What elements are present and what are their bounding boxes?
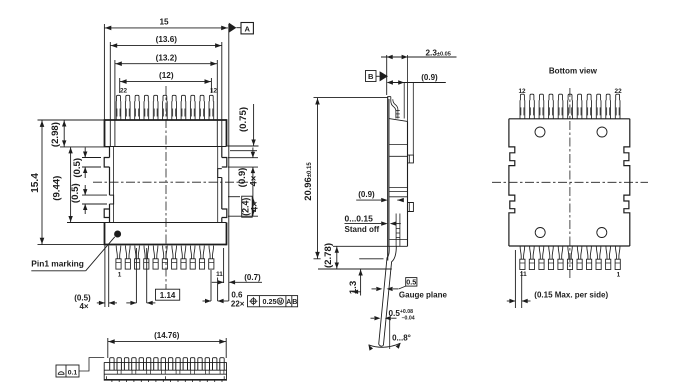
top leads row (pins 22..12) [116,95,214,120]
svg-text:−0.04: −0.04 [402,316,415,322]
front view leads [110,358,225,382]
svg-text:(0.5): (0.5) [72,158,83,178]
side bump right upper [222,158,227,168]
dimension (0.9) top [388,82,446,84]
datum A flag [229,23,237,33]
dimension (2.98) [63,120,65,147]
seating plane extension line [314,258,321,260]
svg-text:(12): (12) [159,71,174,80]
svg-text:(0.7): (0.7) [244,273,261,282]
svg-text:0...0.15: 0...0.15 [345,213,374,223]
side view body [389,119,408,122]
dimension (2.78) [336,246,338,269]
svg-text:0.25: 0.25 [263,297,277,306]
flatness feature control frame 0.1 [56,365,79,377]
datum B flag [366,71,377,82]
dimension 1.14 boxed [135,248,137,303]
svg-text:12: 12 [518,88,526,95]
svg-text:(0.75): (0.75) [238,107,249,132]
dimension (2.4) 4x boxed [252,197,254,217]
svg-text:11: 11 [216,271,223,278]
side view bottom lead [379,246,390,344]
dimension (13.6) [110,45,222,47]
side view bump upper [408,155,414,163]
dimension 0.5 +0.08 -0.04 [371,317,375,319]
svg-text:B: B [292,299,297,306]
svg-text:B: B [368,72,374,81]
package body top band [105,119,227,121]
svg-text:(9.44): (9.44) [52,176,63,201]
bottom view bottom leads [520,246,621,270]
horizontal centerline left view [93,181,248,183]
extension line left x=104.4 [103,24,105,120]
svg-text:1: 1 [617,272,621,279]
svg-text:22: 22 [615,88,623,95]
svg-text:15.4: 15.4 [30,173,41,193]
svg-text:(0.9): (0.9) [358,190,375,199]
svg-text:0...8°: 0...8° [392,334,411,343]
svg-text:(0.9): (0.9) [421,73,438,82]
side view bottom lead shank [395,214,397,247]
side notch right [218,169,222,178]
gauge plane thickness arrows [372,288,377,290]
dimension (0.7) [210,270,212,301]
dimension (0.15 Max. per side) [514,250,516,308]
side view mold lines [390,144,408,146]
side bump right lower [222,209,227,218]
svg-text:M: M [278,300,282,306]
svg-text:22×: 22× [231,299,245,308]
svg-text:A: A [286,299,291,306]
body inner draft lines [113,147,115,223]
dimension (0.5) upper [84,148,86,158]
front view body [103,362,105,380]
bottom view top leads [520,94,620,119]
feature control frame position 0.25 M A B [248,296,298,307]
bottom view centerlines [569,88,571,278]
side bump left upper [104,158,109,168]
gauge plane line [318,268,392,270]
bottom view body outline [509,118,630,120]
dimension 2.3 +-0.05 [381,56,457,58]
dimension (14.76) [108,341,226,343]
body middle section edges [109,147,111,158]
svg-text:(2.98): (2.98) [50,122,61,147]
side bump left lower [104,209,109,218]
svg-text:(0.9): (0.9) [237,168,248,188]
vertical centerline left view [165,86,167,298]
svg-text:22: 22 [120,88,128,95]
bottom view holes [535,127,545,137]
dimension (0.9) 4x right [252,148,254,158]
svg-text:4×: 4× [249,201,260,212]
dimension (9.44) [70,147,72,223]
svg-text:(0.5): (0.5) [70,183,81,203]
side notch left [110,195,114,204]
svg-text:Gauge plane: Gauge plane [399,290,448,299]
side view lead tip plane (left double line) [387,97,389,261]
dimension (12) [120,81,212,83]
side view bump lower [408,203,414,212]
angle dimension 0...8 deg [389,317,391,349]
svg-text:1.14: 1.14 [160,291,176,300]
gauge plane callout 0.5 boxed [406,278,417,287]
dimension (13.2) [115,63,217,65]
dimension 20.96 +-0.15 [317,98,319,259]
svg-text:(14.76): (14.76) [154,331,180,340]
svg-text:0.5: 0.5 [406,277,416,286]
svg-text:15: 15 [159,18,169,27]
dimension 15 top [104,27,227,29]
dimension 1.3 [360,269,362,296]
package body bottom band [105,222,227,224]
svg-text:4×: 4× [79,302,88,311]
svg-text:4×: 4× [248,175,259,186]
svg-text:Pin1 marking: Pin1 marking [31,258,84,268]
svg-text:(13.6): (13.6) [156,35,178,44]
dimension (0.75) [253,104,255,146]
svg-text:12: 12 [210,88,218,95]
svg-text:A: A [244,24,250,33]
svg-text:(0.15 Max. per side): (0.15 Max. per side) [534,291,608,300]
bottom leads row (pins 1..11) [116,246,214,269]
front view datum ticks [106,376,108,379]
dimension 15.4 [41,120,43,245]
svg-text:(13.2): (13.2) [156,53,178,62]
leader from frame to view [79,358,104,371]
svg-text:1: 1 [118,272,122,279]
pin1 marking dot [114,231,121,238]
svg-text:(2.78): (2.78) [323,243,334,268]
side view top lead S-bend [387,96,391,98]
svg-text:Stand off: Stand off [345,225,380,234]
svg-text:11: 11 [520,271,527,278]
svg-text:0.1: 0.1 [68,370,78,377]
dimension (0.5) 4x bottom [104,246,106,308]
extension line right x=228.8 long [228,24,230,301]
svg-text:Bottom view: Bottom view [549,67,598,76]
dimension (0.5) lower [84,185,86,195]
dimension 0.6 22x [203,300,212,302]
